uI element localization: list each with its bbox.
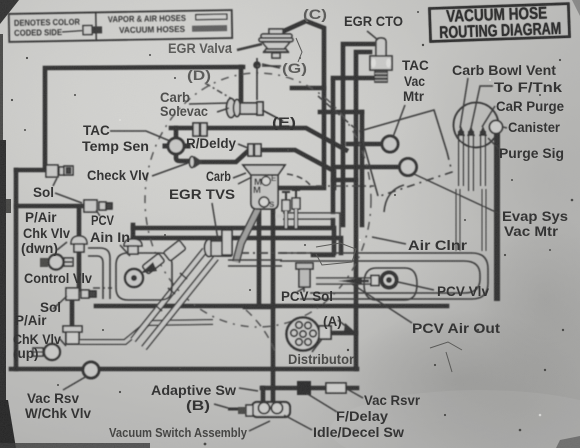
wire tall hose down right cluster — [356, 52, 370, 369]
white tube hoses (vapor/air) — [80, 131, 484, 348]
leader up-valve connector — [33, 351, 44, 353]
wire from EGR valve across to canister drop — [279, 21, 324, 188]
leader Vac Rsvr — [347, 389, 363, 398]
carb solevac — [227, 99, 284, 122]
tube diagonal pair A — [133, 250, 205, 340]
distributor — [287, 318, 355, 351]
wire bottom left upright — [14, 170, 19, 369]
leader PCV Air Out — [352, 284, 412, 323]
left edge cut component — [0, 199, 11, 213]
wire EGR CTO feed — [343, 44, 373, 225]
tube evap drop left — [456, 189, 461, 251]
Ain In tube elbow outer — [88, 248, 110, 299]
light glint specks — [119, 79, 541, 416]
leader Purge Sig — [488, 138, 500, 150]
PCV solenoid — [296, 263, 313, 292]
pump housing — [116, 253, 172, 300]
wire check valve to R/Delay2 — [202, 151, 248, 162]
leader Vacuum Switch Assembly — [249, 421, 270, 431]
tilted tube piece — [163, 240, 186, 261]
wire main frame top/left — [45, 67, 243, 168]
wire TAC vac mtr circle 2 feed — [336, 165, 400, 170]
legend connector icon — [83, 25, 92, 34]
parallelogram TAC vac mtr plate — [360, 110, 447, 196]
leader Evap Sys Vac Mtr — [414, 174, 500, 214]
wire assembly lower line — [262, 386, 357, 391]
EGR valve — [259, 29, 293, 58]
EGR TVS component — [205, 240, 232, 257]
wire control valve drop — [77, 207, 82, 237]
air cleaner inner shell — [280, 261, 480, 293]
arrow inside pcv hose — [338, 278, 362, 284]
control valve link — [63, 261, 72, 263]
leader TAC Temp Sen — [110, 131, 170, 141]
tube joint ticks — [155, 273, 187, 311]
TAC vac mtr circle 2 — [400, 159, 417, 176]
dashed engine tail — [246, 310, 276, 355]
wire sol2 feed line — [16, 204, 84, 209]
wire canister purge signal drop — [494, 134, 500, 298]
leader F/Delay — [306, 393, 337, 412]
tube grey carb drain — [236, 209, 258, 262]
R/Delay component 1 — [193, 123, 207, 136]
leader EGR TVS — [212, 203, 218, 240]
dashed line to parallelogram — [318, 96, 358, 131]
wire TAC sensor side stubs — [165, 144, 188, 149]
TAC temp sensor circle — [168, 138, 184, 154]
leader Sol 1 down — [55, 193, 82, 203]
canister tube arrowheads — [457, 126, 487, 136]
dashed engine outline ellipse — [145, 73, 371, 327]
tube left long hose — [80, 322, 213, 342]
leader Adaptive Sw — [239, 388, 258, 391]
tube evap drop right — [482, 189, 487, 251]
wire frame right edge to carb solevac — [239, 67, 244, 100]
canister body — [454, 103, 499, 148]
dash-dot left mark — [93, 287, 112, 289]
sol 1 component — [46, 165, 73, 177]
check valve cone — [189, 156, 203, 168]
leader EGR CTO — [367, 31, 378, 40]
leader R/Deldy — [238, 144, 248, 148]
air cleaner outer shell — [280, 253, 488, 299]
Ain In mushroom valve — [124, 239, 142, 254]
small canisters right of carb — [282, 190, 300, 228]
white box under bundle — [222, 230, 232, 255]
leader EGR Valva — [237, 44, 262, 50]
PCV valve grommet — [380, 271, 399, 290]
dash-dot cluster crossing — [316, 185, 374, 187]
P/Air chk valve (up) — [33, 326, 82, 360]
leader TAC Vac Mtr — [393, 105, 405, 137]
air cleaner pcv capsule — [364, 268, 417, 300]
leader Distributor — [312, 339, 322, 352]
dash-dot air cleaner mark — [240, 252, 313, 254]
wire distributor pickup — [330, 331, 356, 336]
wire cluster crossbar — [333, 76, 381, 81]
leader Ain In — [120, 245, 130, 256]
leader (G) — [262, 64, 280, 68]
wire vertical to vacuum switch assembly — [271, 210, 276, 402]
wire TAC vac mtr circle 1 feed — [320, 110, 362, 115]
leader (B) — [214, 404, 228, 408]
leader PCV Vlv — [398, 282, 434, 290]
wire diagonal into cluster — [292, 86, 324, 91]
carburetor block — [243, 165, 285, 210]
leader PCV — [96, 210, 100, 216]
vac rsvr capsule — [326, 383, 346, 393]
pump circle with arrow — [125, 253, 165, 287]
sol/pcv component on 206 line — [84, 200, 112, 212]
leader PCV Sol — [297, 288, 304, 292]
wire carb base drop left — [257, 210, 262, 306]
wire R/Delay upper run — [171, 128, 346, 150]
wire distributor box top — [245, 305, 273, 310]
leader Carb Solevac upper — [189, 103, 228, 104]
leader ChK Vlv up — [59, 338, 66, 346]
leader Vac Rsv — [63, 376, 87, 390]
(G) probe — [254, 58, 281, 100]
thin nested corner tubes above air cleaner — [88, 110, 488, 300]
tube pcv hose — [316, 277, 371, 285]
legend thin hose sample — [196, 14, 227, 20]
leader Carb — [233, 173, 252, 184]
vacuum switch assembly — [228, 402, 290, 417]
wire under-bundle manifold stub — [313, 253, 333, 258]
tube canister leg 3 — [480, 131, 486, 186]
wire TAC sensor lower run — [176, 153, 190, 161]
leader Sol 1 up — [53, 178, 57, 186]
dash arc at carb top right — [287, 174, 311, 186]
dark photo edges — [0, 0, 19, 24]
vac rsv check circle — [83, 362, 99, 378]
legend thick hose sample — [192, 25, 227, 32]
leader Canister — [503, 127, 507, 128]
leader (A) arrow — [338, 320, 348, 328]
sol 2 — [66, 288, 96, 300]
dash-dot D leader — [205, 83, 232, 99]
wire mid bundle horizontal — [133, 228, 334, 253]
wire R/Delay2 to cluster — [261, 150, 334, 188]
wire Ain In drop — [131, 225, 136, 240]
leader To F/Tnk — [471, 86, 493, 128]
leader Idle/Decel Sw — [284, 415, 312, 430]
leader Check Vlv — [152, 163, 188, 176]
canister port circle — [490, 121, 503, 134]
wire TAC sensor stub — [174, 128, 179, 139]
scratch marks — [296, 38, 462, 372]
Ain In tube elbow inner — [88, 256, 103, 299]
tube canister leg 2 — [468, 131, 474, 191]
leader Chk Vlv dwn — [57, 242, 67, 250]
EGR CTO sensor — [370, 38, 392, 82]
leader Air Clnr — [372, 237, 406, 244]
wire bottom main line — [11, 367, 357, 372]
P/Air chk valve (dwn) — [40, 236, 87, 270]
leader Carb Solevac lower — [217, 108, 229, 112]
R/Delay component 2 — [248, 144, 261, 156]
wire long manifold line — [96, 304, 447, 309]
wire chk vlv up drop — [70, 300, 75, 330]
leader Sol 2 — [53, 296, 67, 309]
F delay black cube — [297, 381, 311, 395]
tube diagonal pair B — [144, 258, 216, 348]
tube canister leg 1 — [458, 131, 464, 186]
leader Can Purge — [482, 106, 495, 127]
TAC vac mtr circle 1 — [382, 136, 398, 152]
leader Carb Bowl Vent — [460, 78, 468, 128]
